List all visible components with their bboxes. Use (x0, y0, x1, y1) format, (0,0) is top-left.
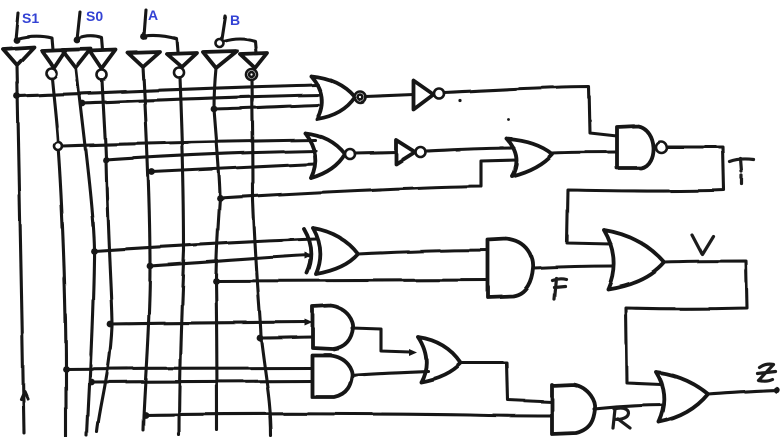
wire S0n to ANDa (110, 322, 306, 324)
wire OR2 to NAND (552, 152, 617, 153)
input stub S0 (77, 12, 80, 40)
OR3 gate (604, 230, 664, 289)
wire NOR2 to inverter U2 (355, 152, 396, 153)
wire S0 to NOR1 (82, 95, 320, 103)
label Z (757, 364, 775, 381)
wire OR7 output (708, 390, 776, 394)
junction S1n row2 (open) (54, 142, 62, 150)
inverter An (167, 53, 197, 67)
wire U2 to OR2 (426, 148, 515, 151)
junction S1n row5 (63, 366, 70, 373)
wire B to NOR1 (214, 105, 318, 109)
wire bus S0 (76, 68, 94, 436)
junction Bn row4 (257, 335, 264, 342)
junction B row ANDF (213, 278, 220, 285)
arrow ANDa input (305, 319, 313, 326)
wire ANDF to OR3 (534, 266, 613, 268)
wire S0 branch to inverter (77, 36, 103, 50)
ink speck (508, 119, 511, 122)
wire A to NOR2 (152, 164, 315, 172)
bubble S0n (97, 70, 107, 80)
input stub S1 (16, 13, 19, 40)
wire S0n to NOR2 (106, 151, 316, 160)
input stub A (144, 10, 146, 36)
wire bus S1 (17, 65, 24, 433)
wire S1n to NOR2 (62, 140, 315, 146)
wire A to AND6 long (146, 414, 553, 416)
bubble An (174, 68, 184, 78)
wire OR5 to AND6 (461, 363, 552, 402)
wire S1 to NOR1 (17, 85, 318, 96)
arrow XOR input (305, 252, 313, 259)
label T (730, 159, 754, 184)
wire ANDb to OR5 (352, 371, 428, 375)
junction B riser (217, 195, 224, 202)
junction A bottom (142, 412, 149, 419)
wire A branch to inverter (144, 35, 178, 52)
inverter U2 (396, 140, 415, 164)
buffer S0 (62, 49, 91, 68)
bubble U2 (416, 147, 426, 157)
junction S1 input (13, 37, 20, 44)
wire NOR1 to inverter U1 (366, 95, 414, 97)
junction B row1 (211, 106, 218, 113)
wire U1 to NAND riser (445, 87, 618, 136)
inverter S0n (90, 50, 116, 69)
wire bus An (179, 78, 184, 436)
inverter Bn (240, 53, 267, 68)
wire ANDa to OR5 (352, 328, 410, 352)
bubble NOR2 (345, 149, 355, 159)
svg-text:S0: S0 (86, 8, 103, 24)
inverter U1 (414, 81, 434, 110)
wire AND6 to OR7 (594, 405, 664, 409)
AND F gate (488, 239, 533, 297)
wire OR3 output V loop (626, 261, 747, 385)
label F (552, 278, 566, 299)
wire B riser to OR2 (220, 160, 516, 198)
wire S1 branch to inverter (17, 36, 54, 50)
wire bus Bn (252, 80, 271, 436)
svg-text:A: A (148, 7, 158, 23)
NAND gate (617, 126, 653, 168)
bubble U1 (435, 89, 445, 99)
arrow OR5 input (409, 349, 417, 356)
svg-text:S1: S1 (22, 10, 39, 26)
junction S0 row5 (88, 379, 95, 386)
junction S0n row4 (107, 321, 114, 328)
wire S1n to ANDb (66, 368, 312, 369)
input stub B (221, 16, 225, 42)
ink speck (459, 99, 462, 102)
junction S0 input (74, 37, 81, 44)
wire XOR to ANDF (358, 250, 488, 254)
wire NAND output T loop (567, 147, 724, 244)
label R (613, 408, 630, 428)
wire A to XOR (150, 255, 310, 266)
wire S0 to XOR (94, 239, 317, 251)
label V (692, 235, 713, 254)
junction S1 row1 (14, 93, 21, 100)
wire bus S0n (97, 80, 112, 432)
buffer A (128, 52, 160, 67)
bubble NOR1 (355, 92, 366, 103)
junction B input (open) (216, 39, 224, 47)
AND b gate (312, 355, 352, 397)
inverter S1n (42, 50, 66, 68)
arrow on S1 bus (21, 391, 28, 399)
junction S0 row1 (79, 100, 86, 107)
AND a gate (313, 306, 353, 349)
NOR2 gate (305, 133, 345, 178)
bubble NAND (656, 142, 667, 153)
wire bus A (143, 67, 150, 430)
junction A row3 (147, 263, 154, 270)
wire bus B (214, 68, 220, 430)
OR2 gate (507, 139, 552, 176)
bubble S1n (47, 69, 57, 79)
buffer S1 (3, 47, 34, 65)
wire bus S1n (52, 79, 66, 437)
junction A row2 (149, 169, 156, 176)
AND6 gate R (552, 385, 595, 434)
wire B branch to inverter (223, 39, 256, 54)
junction A input (141, 34, 148, 41)
NOR1 gate (311, 76, 355, 119)
OR7 gate Z (656, 372, 708, 422)
bubble Bn (246, 69, 257, 80)
wire S0 to ANDb (92, 381, 313, 382)
wire Bn to ANDa (260, 337, 313, 338)
wire B to ANDF (216, 280, 488, 281)
buffer B (203, 51, 237, 68)
OR5 gate (418, 337, 461, 382)
svg-text:B: B (230, 12, 240, 28)
XOR gate (304, 228, 358, 274)
junction S0 row3 (91, 248, 98, 255)
junction S0n row2 (103, 157, 110, 164)
